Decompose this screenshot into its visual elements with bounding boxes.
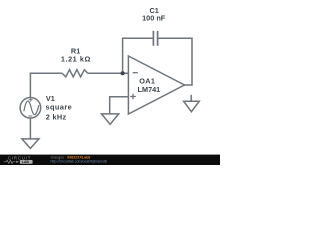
svg-text:http://circuitlab.com/ceab/bjb: http://circuitlab.com/ceab/bjb/ansd6 — [51, 160, 107, 164]
ground V1 — [22, 139, 39, 149]
V1 plus mark — [29, 98, 33, 102]
wire V1 bottom — [29, 118, 31, 138]
V1 sine wave glyph — [24, 101, 39, 115]
V1 minus mark — [28, 115, 32, 117]
op-amp minus input mark — [133, 72, 138, 74]
logo arrow — [16, 161, 19, 163]
junction node dot — [121, 71, 125, 75]
wire noninverting input — [110, 97, 129, 114]
svg-text:1.21 kΩ: 1.21 kΩ — [61, 54, 91, 63]
wire resistor to op-amp inverting input — [88, 72, 128, 74]
op-amp plus input mark — [130, 94, 136, 100]
svg-text:square: square — [46, 103, 73, 112]
wire feedback right and output — [158, 38, 192, 85]
capacitor C1 — [153, 31, 157, 46]
svg-text:100 nF: 100 nF — [142, 14, 166, 23]
svg-text:LAB: LAB — [22, 160, 30, 164]
logo LAB box — [20, 160, 33, 164]
svg-text:LM741: LM741 — [138, 85, 161, 94]
resistor R1 — [62, 70, 88, 77]
svg-text:2 kHz: 2 kHz — [46, 112, 67, 121]
footer black bar — [0, 155, 220, 165]
wire output ground stem — [190, 95, 192, 101]
wire feedback left and top — [123, 38, 154, 73]
wire V1 top to resistor — [30, 73, 62, 97]
ground noninverting input — [102, 114, 119, 124]
logo resistor zigzag — [4, 160, 16, 163]
ground output — [184, 101, 200, 112]
svg-text:V1: V1 — [46, 94, 55, 103]
op-amp U1 triangle — [128, 56, 184, 114]
voltage source V1 circle — [20, 98, 41, 119]
